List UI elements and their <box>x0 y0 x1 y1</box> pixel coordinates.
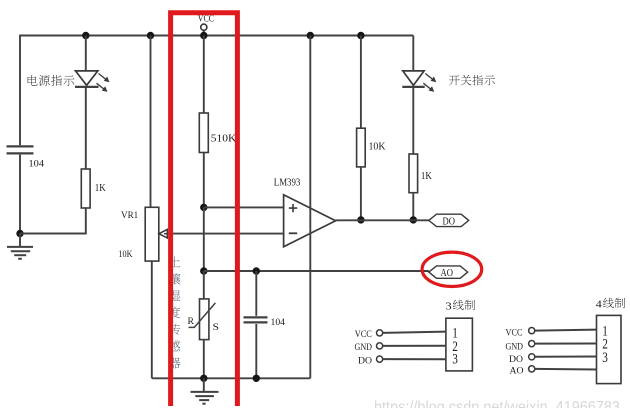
svg-text:LM393: LM393 <box>274 177 301 188</box>
wire sensor to bottom rail <box>203 340 205 379</box>
label 3线制 (3-wire) <box>446 300 475 313</box>
terminal circle J2 GND <box>529 341 535 347</box>
wire C3 bottom <box>255 324 257 378</box>
terminal circle J1 DO <box>377 356 383 362</box>
svg-text:https://blog.csdn.net/weixin_4: https://blog.csdn.net/weixin_41966783 <box>374 399 620 408</box>
svg-text:1K: 1K <box>95 183 107 194</box>
terminal circle J2 AO <box>529 366 535 372</box>
svg-text:DO: DO <box>358 356 372 366</box>
wire top VCC rail <box>20 35 413 37</box>
label DO (J1 pin3) <box>358 356 372 366</box>
node: top rail / supply drop wire <box>307 32 314 39</box>
label VCC (J1 pin1) <box>355 330 372 340</box>
LED D2 switch indicator <box>402 71 436 92</box>
capacitor C1 104 <box>7 146 45 169</box>
svg-text:AO: AO <box>510 367 524 377</box>
node: bottom rail / C3 <box>253 375 260 382</box>
LED D1 power indicator <box>75 71 110 92</box>
wire LED D1 anode <box>85 36 87 71</box>
wire J2 GND lead <box>535 343 597 345</box>
wire supply drop (top rail to bottom rail) <box>309 36 311 379</box>
wire AO line <box>204 270 429 272</box>
node: bottom rail / sensor+ground <box>200 375 207 382</box>
node: left ground junction <box>16 230 23 237</box>
port DO <box>429 214 469 227</box>
wire R3 to DO line <box>360 167 362 220</box>
node: DO line / R4 <box>410 216 417 223</box>
wire AO node down to sensor <box>203 271 205 299</box>
wire top rail corner down to LED D2 <box>412 36 414 71</box>
wire VCC to R1 <box>203 36 205 114</box>
label DO (J2 pin3) <box>509 355 523 365</box>
terminal VCC <box>201 24 207 35</box>
svg-text:104: 104 <box>29 160 45 170</box>
svg-text:510K: 510K <box>211 134 237 145</box>
sensor RS (soil probe) <box>189 299 216 340</box>
svg-text:VR1: VR1 <box>121 211 138 221</box>
node: top rail / R3 <box>357 32 364 39</box>
svg-text:3: 3 <box>452 352 458 368</box>
label 4线制 (4-wire) <box>596 298 625 311</box>
svg-text:4: 4 <box>596 299 603 311</box>
label GND (J1 pin2) <box>355 343 373 353</box>
label VCC (top) <box>198 15 214 25</box>
svg-text:GND: GND <box>506 342 524 352</box>
connector J2 4-wire <box>597 315 622 383</box>
terminal circle J1 GND <box>377 343 383 349</box>
wire C3 top <box>255 271 257 316</box>
connector J1 3-wire <box>446 318 473 371</box>
wire LED D2 cathode to R4 <box>412 88 414 154</box>
wire op-amp output to DO <box>336 219 429 221</box>
label 10K (VR1 value) <box>119 250 133 260</box>
wire minus input (from VR1 wiper) <box>167 233 284 235</box>
red highlight ellipse (AO) <box>422 252 482 286</box>
wire R2 to ground node <box>20 208 86 234</box>
wire VR1 bottom to bottom rail <box>151 261 153 378</box>
ground (center bottom) <box>191 378 219 403</box>
terminal circle J2 DO <box>529 354 535 360</box>
terminal circle J2 VCC <box>529 328 535 334</box>
label 开关指示 (switch indicator) <box>449 75 495 85</box>
svg-text:10K: 10K <box>119 250 133 260</box>
node: top rail / LED D1 branch <box>82 32 89 39</box>
svg-text:S: S <box>213 323 220 333</box>
node: DO line / R3 <box>357 216 364 223</box>
node: divider / op-amp plus input <box>200 204 207 211</box>
svg-text:1K: 1K <box>421 171 433 182</box>
svg-text:3: 3 <box>602 350 608 366</box>
svg-text:3: 3 <box>446 301 453 313</box>
wire J1 DO lead <box>383 358 446 360</box>
potentiometer VR1 10K <box>145 207 167 261</box>
svg-text:AO: AO <box>441 268 454 279</box>
label GND (J2 pin2) <box>506 342 524 352</box>
svg-text:VCC: VCC <box>198 15 214 25</box>
capacitor C3 104 <box>244 317 286 327</box>
svg-text:DO: DO <box>443 217 456 228</box>
wire left branch vertical (C1 to ground node) <box>19 155 21 234</box>
wire bottom ground rail <box>152 377 310 379</box>
wire J1 VCC lead <box>383 332 446 333</box>
wire J1 GND lead <box>383 345 446 347</box>
wire plus input <box>204 206 284 208</box>
wire J2 VCC lead <box>535 330 597 331</box>
svg-text:VCC: VCC <box>355 330 372 340</box>
node: top rail / VCC <box>200 32 207 39</box>
resistor R4 1K <box>409 154 433 193</box>
wire VR1 top <box>150 36 152 208</box>
resistor R1 510K <box>199 113 236 153</box>
svg-text:10K: 10K <box>369 141 387 152</box>
svg-text:104: 104 <box>271 318 286 328</box>
ground (left) <box>7 234 33 259</box>
wire R3 top <box>360 36 362 129</box>
wire J2 AO lead <box>535 368 597 371</box>
wire J2 DO lead <box>535 356 597 358</box>
label LM393 <box>274 177 301 188</box>
resistor R2 1K <box>81 169 106 208</box>
wire left branch vertical (top rail to C1) <box>19 35 21 146</box>
label VCC (J2 pin1) <box>506 328 523 338</box>
resistor R3 10K <box>357 128 387 167</box>
watermark <box>374 399 620 408</box>
op-amp U1 LM393 <box>284 195 336 247</box>
label S (sensor) <box>213 323 220 333</box>
node: top rail / VR1 branch <box>147 32 154 39</box>
label VR1 <box>121 211 138 221</box>
terminal circle J1 VCC <box>377 330 383 336</box>
node: AO tap <box>200 267 207 274</box>
port AO <box>429 266 468 279</box>
label 电源指示 (power indicator) <box>28 75 75 86</box>
svg-text:DO: DO <box>509 355 523 365</box>
label R (sensor) <box>188 317 195 327</box>
svg-text:GND: GND <box>355 343 373 353</box>
label 土壤湿度传感器 (vertical, soil moisture sensor) <box>169 256 181 368</box>
wire R1 to plus node <box>203 153 205 208</box>
red highlight rectangle (sensor divider column) <box>171 13 238 406</box>
svg-text:R: R <box>188 317 195 327</box>
wire LED D1 cathode to R2 <box>85 88 87 169</box>
wire divider down to AO node <box>203 207 205 271</box>
node: AO line / C3 <box>253 267 260 274</box>
label AO (J2 pin4) <box>510 367 524 377</box>
svg-text:VCC: VCC <box>506 328 523 338</box>
wire R4 to DO line <box>412 193 414 220</box>
